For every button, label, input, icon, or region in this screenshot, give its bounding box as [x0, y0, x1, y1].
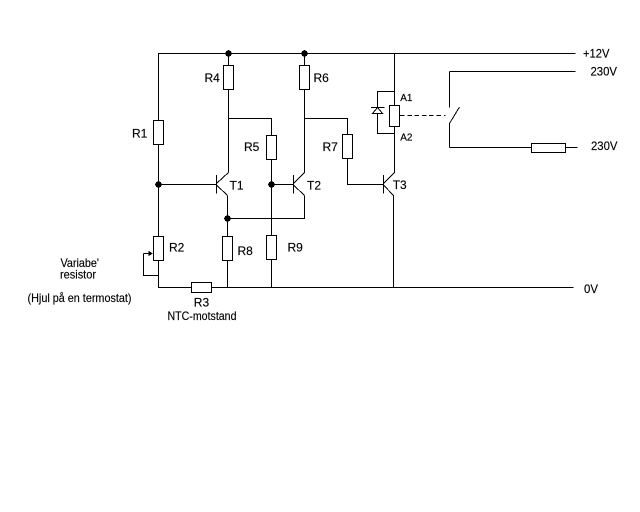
resistor R9 — [267, 236, 277, 260]
svg-text:R3: R3 — [194, 296, 210, 310]
relay coil A1-A2 — [390, 106, 400, 127]
wire 230V top line — [450, 71, 576, 73]
svg-text:T2: T2 — [307, 178, 321, 192]
wire T2 emitter to shared emitter node — [228, 196, 305, 219]
svg-text:R7: R7 — [323, 140, 339, 154]
wire branch T2 collector to R7 — [305, 119, 348, 135]
svg-text:T1: T1 — [230, 178, 244, 192]
wire T1 base — [159, 184, 217, 186]
wire T1 emitter down — [227, 196, 229, 219]
wire 0V bottom rail — [158, 287, 574, 289]
resistor R3 NTC — [192, 283, 212, 293]
svg-text:R8: R8 — [238, 244, 254, 258]
wire R4 bottom to T1 collector — [228, 90, 230, 173]
wire relay coil top lead from +12V rail — [394, 54, 396, 106]
svg-text:T3: T3 — [393, 178, 407, 192]
wire R8 bottom lead — [227, 261, 229, 288]
node top rail R4 junction — [225, 50, 232, 57]
resistor R8 — [223, 237, 233, 261]
wire R8 top lead — [227, 219, 229, 237]
resistor load 230V — [532, 144, 566, 153]
potentiometer wiper arrow of R2 — [144, 251, 159, 276]
wire T3 emitter to 0V rail — [393, 196, 395, 288]
node R1 R2 T1-base junction — [155, 181, 162, 188]
svg-text:+12V: +12V — [583, 47, 610, 61]
wire T2 base — [272, 184, 294, 186]
transistor T2 — [294, 173, 305, 196]
svg-text:R2: R2 — [169, 240, 185, 254]
wire T3 collector to relay coil — [394, 127, 396, 173]
transistor T1 — [217, 173, 229, 196]
svg-text:0V: 0V — [584, 282, 598, 296]
resistor R6 — [300, 66, 310, 90]
wire R7 bottom to T3 base — [348, 159, 384, 185]
wire R6 top lead — [304, 54, 306, 66]
wire switch lower contact — [449, 124, 451, 148]
wire left branch upper (rail to R1) — [158, 54, 160, 121]
node top rail R6 junction — [301, 50, 308, 57]
wire R6 bottom to T2 collector — [304, 90, 306, 173]
resistor R5 — [267, 136, 277, 160]
wire branch T1 collector to R5 — [229, 119, 272, 136]
svg-text:NTC-motstand: NTC-motstand — [168, 309, 237, 323]
svg-text:R5: R5 — [244, 140, 260, 154]
svg-text:R1: R1 — [132, 127, 148, 141]
wire R1 bottom to R2 top — [158, 145, 160, 237]
svg-text:A2: A2 — [400, 133, 413, 144]
transistor T3 — [384, 173, 395, 196]
wire 230V bottom line — [450, 147, 578, 149]
wire top +12V rail — [158, 53, 576, 55]
wire dashed relay link — [400, 115, 446, 117]
node T1-emitter R8 junction — [224, 215, 231, 222]
svg-text:R6: R6 — [314, 71, 330, 85]
svg-text:A1: A1 — [400, 93, 413, 104]
wire diode bottom branch — [378, 114, 395, 134]
wire R4 top lead — [228, 54, 230, 66]
resistor R7 — [343, 135, 353, 159]
svg-text:R4: R4 — [205, 71, 221, 85]
diode D1 flyback — [371, 108, 385, 114]
node R5 R9 T2-base junction — [268, 181, 275, 188]
resistor R4 — [224, 66, 234, 90]
wire R9 bottom lead — [271, 260, 273, 288]
svg-text:230V: 230V — [591, 65, 618, 79]
svg-text:R9: R9 — [288, 240, 304, 254]
wire R2 bottom to 0V rail — [158, 261, 160, 288]
svg-text:resistor: resistor — [60, 268, 96, 282]
resistor R1 — [154, 121, 164, 145]
svg-text:230V: 230V — [591, 139, 618, 153]
switch S1 blade — [450, 107, 460, 124]
wire R5 bottom to node B2 and R9 — [271, 160, 273, 236]
wire switch upper contact — [449, 72, 451, 108]
wire diode top branch — [378, 92, 395, 108]
resistor R2 — [154, 237, 164, 261]
svg-text:(Hjul på en termostat): (Hjul på en termostat) — [28, 291, 132, 305]
